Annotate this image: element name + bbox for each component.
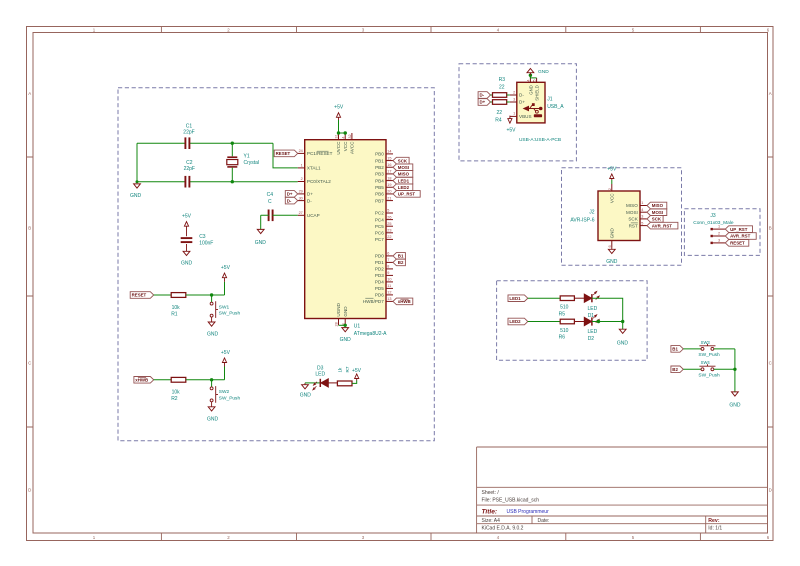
svg-text:Crystal: Crystal: [244, 160, 260, 166]
global label MISO at U1 pin 17: [393, 171, 413, 178]
wire junction to SW1: [211, 295, 213, 302]
U1 pin 4 VCC: [344, 133, 346, 140]
svg-text:J3: J3: [710, 213, 716, 219]
junction at R2 SW2: [210, 378, 213, 381]
svg-text:510: 510: [560, 305, 569, 311]
svg-text:26: 26: [387, 215, 391, 219]
connector J2 AVR-ISP-6 body: [598, 191, 640, 241]
U1 pin 5 PC2: [386, 212, 393, 214]
global label RESET at J3 pin 3: [725, 240, 749, 247]
svg-text:C4: C4: [267, 192, 274, 198]
svg-text:GND: GND: [340, 337, 352, 343]
svg-text:SW2: SW2: [219, 389, 230, 395]
wire RESET label to R1: [154, 294, 171, 296]
wire +5V to C3: [186, 226, 188, 236]
svg-text:1: 1: [718, 225, 720, 229]
svg-text:Conn_01x03_Male: Conn_01x03_Male: [693, 220, 734, 226]
svg-text:R3: R3: [499, 77, 506, 83]
svg-text:PC2: PC2: [375, 211, 384, 216]
svg-text:25: 25: [387, 222, 391, 226]
svg-text:GND: GND: [538, 69, 549, 75]
svg-text:+5V: +5V: [221, 350, 231, 356]
svg-text:4: 4: [527, 79, 531, 81]
svg-text:xHWB: xHWB: [398, 299, 411, 304]
svg-text:PB3: PB3: [375, 172, 384, 177]
J1 pin 4 GND: [529, 75, 531, 82]
U1 pin 3 GND: [344, 319, 346, 326]
frame row ticks left: [27, 157, 34, 427]
svg-text:PB0: PB0: [375, 152, 384, 157]
svg-text:RESET: RESET: [276, 151, 291, 156]
svg-text:29: 29: [299, 190, 303, 194]
svg-text:R2: R2: [171, 396, 178, 402]
svg-text:SW_Push: SW_Push: [698, 372, 720, 378]
U1 pin 14 PB0: [386, 153, 393, 155]
svg-text:B: B: [28, 226, 31, 231]
wire LED2 label to R6: [528, 321, 560, 323]
U1 pin 21 PB7: [386, 200, 393, 202]
svg-text:22: 22: [387, 235, 391, 239]
svg-text:PC0/XTAL2: PC0/XTAL2: [307, 179, 331, 184]
svg-text:10: 10: [387, 278, 391, 282]
wire junction to SW2: [211, 380, 213, 387]
svg-text:Title:: Title:: [482, 509, 498, 516]
svg-text:18: 18: [387, 176, 391, 180]
svg-text:MOSI: MOSI: [398, 165, 409, 170]
switch SW1 SW_Push: [210, 302, 213, 305]
svg-text:U1: U1: [354, 324, 361, 330]
svg-text:+5V: +5V: [506, 127, 516, 133]
svg-text:10k: 10k: [172, 305, 181, 311]
J1 pin 3 D+: [510, 101, 517, 103]
U1 pin 18 PB4: [386, 180, 393, 182]
connector J1 USB_A body: [517, 82, 545, 123]
wire D+ to R4: [491, 101, 493, 103]
svg-text:MISO: MISO: [398, 172, 410, 177]
wire R6 to D2: [574, 321, 584, 323]
dashed box USB connector section: [459, 64, 576, 161]
title block outline: [477, 447, 768, 533]
svg-text:1: 1: [93, 28, 96, 33]
capacitor C4: [268, 210, 270, 222]
svg-text:USB_A: USB_A: [547, 104, 564, 110]
svg-text:4: 4: [641, 208, 643, 212]
svg-text:D-: D-: [480, 93, 485, 98]
svg-text:6: 6: [608, 245, 612, 247]
global label D- at R3: [478, 92, 490, 99]
wire J1 shield to ground: [530, 75, 536, 78]
svg-text:+5V: +5V: [607, 167, 617, 173]
U1 pin 6 PD0: [386, 255, 393, 257]
J2 pin 6 GND: [611, 241, 613, 248]
J2 pin 1 MISO: [640, 205, 647, 207]
svg-text:D-: D-: [287, 198, 292, 203]
wire C3 to ground: [186, 244, 188, 251]
ground at buttons: [732, 392, 739, 396]
svg-text:SW1: SW1: [219, 304, 230, 310]
svg-text:MISO: MISO: [652, 203, 664, 208]
global label SCK at U1 pin 15: [393, 157, 409, 164]
svg-text:AVCC: AVCC: [350, 141, 355, 154]
svg-text:1: 1: [641, 201, 643, 205]
svg-text:3: 3: [362, 28, 365, 33]
global label xHWB at R2: [134, 377, 154, 384]
wire LED1 label to R5: [528, 297, 560, 299]
U1 pin 8 PD2: [386, 268, 393, 270]
svg-text:A: A: [769, 91, 772, 96]
U1 pin 11 PD5: [386, 287, 393, 289]
svg-text:B1: B1: [672, 347, 678, 352]
global label D+ at R4: [478, 99, 490, 106]
ground below SW2: [208, 407, 215, 411]
wire SW1 to ground: [211, 317, 213, 322]
wire +5V to U1 VCC pins: [339, 120, 348, 133]
ground below U1: [342, 328, 349, 332]
svg-text:R1: R1: [171, 311, 178, 317]
svg-text:14: 14: [387, 150, 391, 154]
switch SW3 SW_Push: [701, 347, 704, 350]
svg-text:LED1: LED1: [398, 178, 410, 183]
svg-text:PD2: PD2: [375, 267, 384, 272]
svg-text:10k: 10k: [172, 390, 181, 396]
wire R7 to +5V: [352, 381, 357, 384]
svg-text:ATmega8U2-A: ATmega8U2-A: [354, 331, 387, 337]
svg-text:RESET: RESET: [132, 293, 147, 298]
U1 pin 19 PB5: [386, 186, 393, 188]
U1 pin 30 D-: [298, 200, 305, 202]
svg-text:PB1: PB1: [375, 158, 384, 163]
svg-text:6: 6: [387, 252, 389, 256]
U1 pin 31 UVCC: [338, 133, 340, 140]
svg-text:GND: GND: [617, 340, 629, 346]
junction at VCC: [344, 131, 347, 134]
dashed box J3 connector section: [684, 209, 760, 256]
svg-text:PD1: PD1: [375, 260, 384, 265]
wire D3 to R7: [328, 382, 337, 384]
svg-text:2: 2: [608, 188, 612, 190]
svg-text:Rev:: Rev:: [708, 518, 720, 524]
J1 pin 1 VBUS: [510, 115, 517, 117]
resistor R3 22: [493, 93, 507, 98]
svg-text:LED2: LED2: [398, 185, 410, 190]
svg-text:24: 24: [299, 149, 303, 153]
svg-text:5: 5: [632, 535, 635, 540]
svg-text:SW_Push: SW_Push: [698, 352, 720, 358]
ground below C3: [183, 251, 190, 255]
U1 pin 29 D+: [298, 193, 305, 195]
wire xHWB label to R2: [154, 379, 171, 381]
svg-text:4: 4: [497, 535, 500, 540]
svg-text:SCK: SCK: [628, 217, 638, 222]
svg-text:Y1: Y1: [244, 153, 250, 159]
svg-text:PB2: PB2: [375, 165, 384, 170]
global label LED2: [508, 318, 528, 325]
svg-text:PD6: PD6: [375, 293, 384, 298]
wire B1 to B2 ground net: [734, 349, 736, 369]
resistor R1 10k: [171, 293, 186, 298]
svg-text:15: 15: [387, 156, 391, 160]
U1 pin 25 PC5: [386, 225, 393, 227]
wire SW2 to ground: [211, 402, 213, 407]
J2 pin 2 VCC: [611, 184, 613, 191]
global label D- at U1 pin 30: [285, 197, 297, 204]
wire D- to R3: [491, 94, 493, 96]
svg-text:Sheet: /: Sheet: /: [482, 490, 500, 496]
svg-text:LED2: LED2: [509, 319, 521, 324]
J3 pin 3: [711, 242, 713, 244]
svg-text:4: 4: [497, 28, 500, 33]
ground at LED section: [619, 329, 626, 333]
global label AVR_RST at J2: [647, 222, 678, 229]
svg-text:D: D: [769, 488, 772, 493]
ground at crystal net: [134, 184, 141, 188]
wire +5V to J2 VCC: [611, 180, 613, 184]
junction after D2: [597, 320, 600, 323]
svg-text:GND: GND: [729, 403, 741, 409]
svg-text:31: 31: [335, 134, 339, 138]
wire to LED ground: [622, 322, 624, 330]
global label B2: [671, 366, 683, 373]
svg-text:22: 22: [497, 110, 503, 116]
svg-text:20: 20: [387, 190, 391, 194]
resistor R7: [337, 381, 352, 386]
svg-text:1: 1: [513, 112, 515, 116]
svg-text:J2: J2: [589, 210, 595, 216]
svg-text:1k: 1k: [337, 367, 342, 373]
svg-text:5: 5: [641, 221, 643, 225]
svg-text:USB Programmeur: USB Programmeur: [507, 509, 550, 515]
U1 pin 28 UGND: [338, 319, 340, 326]
global label LED2 at U1 pin 19: [393, 184, 413, 191]
svg-text:1: 1: [301, 164, 303, 168]
svg-text:PB4: PB4: [375, 178, 384, 183]
svg-text:D2: D2: [588, 336, 595, 342]
svg-text:5: 5: [632, 28, 635, 33]
capacitor C1: [184, 137, 186, 149]
ground at C4: [257, 229, 264, 233]
junction at R1 SW1: [210, 293, 213, 296]
svg-text:Size: A4: Size: A4: [482, 518, 501, 524]
svg-text:MOSI: MOSI: [652, 210, 663, 215]
U1 pin 26 PC4: [386, 219, 393, 221]
svg-text:GND: GND: [528, 85, 533, 95]
J1 pin 5 SHIELD: [536, 78, 538, 82]
global label B2 at U1 pin 7: [393, 259, 405, 266]
resistor R6 510: [560, 319, 574, 324]
svg-text:SW4: SW4: [701, 360, 711, 365]
op-amp U1 body ATmega8U2-A: [305, 140, 386, 319]
svg-text:UCAP: UCAP: [307, 213, 320, 218]
svg-text:+5V: +5V: [221, 265, 231, 271]
svg-text:27: 27: [299, 211, 303, 215]
svg-text:100nF: 100nF: [199, 240, 213, 246]
J2 pin 3 SCK: [640, 218, 647, 220]
wire bottom crystal net: [137, 143, 298, 182]
wire R2 to +5V and SW2: [186, 367, 225, 380]
svg-text:VCC: VCC: [343, 141, 348, 151]
svg-text:MISO: MISO: [626, 203, 638, 208]
U1 pin 1 XTAL1: [298, 167, 305, 169]
svg-text:UP_RST: UP_RST: [730, 227, 748, 232]
U1 pin 2 PC0/XTAL2: [298, 181, 305, 183]
svg-text:5: 5: [533, 79, 537, 81]
svg-text:VCC: VCC: [610, 193, 615, 203]
dashed box main MCU section: [118, 88, 434, 441]
svg-text:GND: GND: [606, 259, 618, 265]
svg-text:R5: R5: [559, 311, 566, 317]
svg-text:A: A: [28, 91, 31, 96]
ground at D3: [304, 383, 306, 385]
svg-text:GND: GND: [610, 228, 615, 239]
svg-text:8: 8: [387, 265, 389, 269]
svg-text:LED: LED: [315, 372, 325, 378]
switch SW4 SW_Push: [701, 368, 704, 371]
svg-text:KiCad E.D.A. 9.0.2: KiCad E.D.A. 9.0.2: [482, 526, 524, 532]
svg-text:PC6: PC6: [375, 231, 384, 236]
svg-text:19: 19: [387, 183, 391, 187]
svg-text:13: 13: [387, 297, 391, 301]
junction crystal bottom: [231, 180, 234, 183]
global label MOSI at J2: [647, 209, 667, 216]
svg-text:AVR_RST: AVR_RST: [652, 223, 672, 228]
J2 pin 5 RST: [640, 225, 647, 227]
svg-text:1: 1: [93, 535, 96, 540]
dashed box LED section: [497, 281, 647, 361]
switch SW2 SW_Push: [210, 387, 213, 390]
global label UP_RST at U1 pin 20: [393, 191, 420, 198]
global label SCK at J2: [647, 216, 663, 223]
svg-text:21: 21: [387, 196, 391, 200]
svg-text:22pF: 22pF: [183, 129, 194, 135]
svg-text:510: 510: [560, 328, 569, 334]
svg-text:2: 2: [513, 90, 515, 94]
global label LED1: [508, 295, 528, 302]
svg-text:PC4: PC4: [375, 217, 384, 222]
svg-text:R7: R7: [345, 366, 350, 372]
svg-text:USB-A:USB-A-PCB: USB-A:USB-A-PCB: [519, 137, 561, 143]
svg-text:B2: B2: [672, 367, 678, 372]
dashed box AVR-ISP section: [562, 168, 682, 265]
svg-text:RESET: RESET: [730, 241, 745, 246]
svg-text:SCK: SCK: [652, 217, 662, 222]
junction at button ground: [733, 368, 736, 371]
svg-text:D3: D3: [317, 365, 324, 371]
frame column ticks bottom: [161, 533, 700, 541]
U1 pin 7 PD1: [386, 261, 393, 263]
wire R4 to J1 pin 3: [507, 101, 510, 103]
global label RESET at U1 pin 24: [274, 150, 298, 157]
global label UP_RST at J3 pin 1: [725, 226, 752, 233]
svg-text:3: 3: [641, 215, 643, 219]
svg-text:D+: D+: [519, 100, 525, 105]
junction at LED ground: [621, 320, 624, 323]
crystal Y1: [231, 143, 233, 156]
svg-text:6: 6: [767, 535, 770, 540]
svg-text:VBUS: VBUS: [519, 114, 532, 119]
svg-text:32: 32: [348, 134, 352, 138]
svg-text:GND: GND: [300, 393, 312, 399]
U1 pin 22 PC7: [386, 238, 393, 240]
svg-text:GND: GND: [255, 240, 267, 246]
svg-text:File: PSE_USB.kicad_sch: File: PSE_USB.kicad_sch: [482, 498, 540, 504]
capacitor C3 100nF: [181, 237, 193, 239]
U1 pin 27 UCAP: [298, 214, 305, 216]
svg-text:LED: LED: [588, 306, 598, 312]
global label B1 at U1 pin 6: [393, 253, 405, 260]
capacitor C2: [184, 176, 186, 188]
svg-text:2: 2: [718, 231, 720, 235]
svg-text:R6: R6: [559, 335, 566, 341]
resistor R2 10k: [171, 377, 186, 382]
junction crystal top: [231, 142, 234, 145]
svg-text:3: 3: [362, 535, 365, 540]
svg-text:GND: GND: [181, 261, 193, 267]
wire R5 to D1: [574, 297, 584, 299]
svg-text:2: 2: [227, 535, 230, 540]
U1 pin 10 PD4: [386, 281, 393, 283]
resistor R4 22: [493, 100, 507, 105]
resistor R5 510: [560, 296, 574, 301]
junction at J1 ground: [529, 74, 532, 77]
global label AVR_RST at J3 pin 2: [725, 233, 756, 240]
svg-text:+5V: +5V: [182, 213, 192, 219]
global label RESET at R1: [130, 292, 154, 299]
svg-text:UGND: UGND: [336, 302, 341, 316]
wire ground to D3: [305, 382, 320, 384]
svg-text:PC1/RESET: PC1/RESET: [307, 151, 333, 156]
wire R1 to +5V and SW1: [186, 282, 225, 295]
wire SW4 to ground net: [714, 368, 735, 370]
svg-text:B: B: [769, 226, 772, 231]
svg-text:GND: GND: [207, 332, 219, 338]
svg-text:3: 3: [513, 97, 515, 101]
svg-text:Date:: Date:: [538, 518, 550, 524]
U1 pin 13 HWB/PD7: [386, 300, 393, 302]
svg-text:B2: B2: [398, 260, 404, 265]
svg-text:SHIELD: SHIELD: [535, 85, 540, 101]
ground below J2: [611, 248, 613, 250]
wire to button ground: [734, 369, 736, 392]
wire R3 to J1 pin 2: [507, 94, 510, 96]
U1 pin 16 PB2: [386, 166, 393, 168]
svg-text:D+: D+: [480, 100, 486, 105]
U1 pin 24 PC1/RESET: [298, 152, 305, 154]
svg-text:UVCC: UVCC: [336, 141, 341, 155]
svg-text:7: 7: [387, 258, 389, 262]
J3 pin 2: [711, 235, 713, 237]
U1 pin 17 PB3: [386, 173, 393, 175]
svg-text:22pF: 22pF: [184, 166, 195, 172]
svg-text:23: 23: [387, 229, 391, 233]
J2 pin 4 MOSI: [640, 211, 647, 213]
wire B2 label to SW4: [683, 368, 701, 370]
wire B1 label to SW3: [683, 348, 701, 350]
wire top crystal net: [137, 143, 298, 168]
svg-text:4: 4: [341, 136, 345, 138]
wire UCAP net: [261, 215, 298, 229]
USB icon inside J1: [525, 108, 541, 110]
ground below SW1: [208, 322, 215, 326]
svg-text:D: D: [28, 488, 31, 493]
svg-text:11: 11: [387, 284, 391, 288]
svg-text:D+: D+: [287, 192, 293, 197]
frame row ticks right: [768, 157, 774, 427]
svg-text:Id: 1/1: Id: 1/1: [708, 526, 722, 532]
svg-text:C3: C3: [199, 234, 206, 240]
ground above J1: [529, 73, 531, 76]
LED D1: [584, 294, 591, 302]
svg-text:SCK: SCK: [398, 158, 408, 163]
